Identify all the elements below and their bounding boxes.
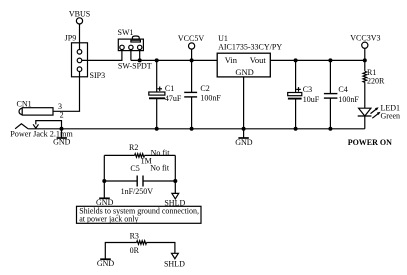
capacitor C1 47uF: [149, 60, 182, 128]
sleeve chevron contact: [15, 124, 28, 129]
svg-text:C3: C3: [303, 85, 312, 94]
wire JP9 pin3 down to power jack: [53, 72, 80, 112]
junction: [294, 127, 298, 131]
svg-text:Vin: Vin: [225, 55, 238, 65]
svg-text:R2: R2: [129, 143, 138, 152]
capacitor C3 10uF: [288, 60, 320, 128]
power port VBUS: [69, 9, 90, 24]
svg-text:SW1: SW1: [118, 28, 134, 37]
regulator U1 AIC1735-33CY/PY: [217, 34, 282, 77]
resistor R3 0R: [105, 231, 175, 258]
svg-text:VCC3V3: VCC3V3: [350, 33, 380, 42]
svg-text:No fit: No fit: [151, 148, 171, 157]
power port VCC5V: [178, 34, 204, 60]
ground at C5: [96, 198, 114, 207]
svg-text:C2: C2: [200, 84, 209, 93]
junction: [190, 127, 194, 131]
wire top rail VCC3V3: [270, 59, 365, 61]
junction: [60, 127, 64, 131]
wire SW1 pin2 to rail: [130, 50, 132, 61]
wire R2 right down: [174, 155, 176, 193]
svg-text:No fit: No fit: [150, 163, 170, 172]
connector JP9 (SIP3): [65, 34, 105, 80]
junction: [155, 127, 159, 131]
svg-text:VCC5V: VCC5V: [178, 34, 204, 43]
wire top rail VCC5V: [131, 59, 217, 61]
svg-text:SW-SPDT: SW-SPDT: [118, 62, 152, 71]
svg-text:GND: GND: [235, 67, 253, 77]
svg-text:GND: GND: [53, 138, 71, 147]
svg-text:R3: R3: [130, 231, 139, 240]
shield port SHLD at C5: [164, 193, 185, 207]
svg-text:at power jack only: at power jack only: [79, 214, 138, 223]
junction: [363, 58, 367, 62]
capacitor C5 1nF/250V: [104, 163, 175, 196]
svg-text:CN1: CN1: [17, 99, 32, 108]
capacitor C4 100nF: [324, 60, 360, 128]
wire U1 GND pin down: [243, 77, 245, 129]
svg-text:AIC1735-33CY/PY: AIC1735-33CY/PY: [218, 43, 282, 52]
LED LED1 Green: [358, 104, 400, 121]
shield port SHLD at R3: [164, 253, 185, 268]
junction: [173, 179, 177, 183]
svg-text:Vout: Vout: [250, 55, 267, 65]
ground at power jack: [53, 129, 71, 147]
resistor R2 1M: [104, 143, 175, 166]
svg-text:Green: Green: [381, 112, 401, 121]
note box: [77, 206, 202, 223]
junction: [294, 58, 298, 62]
wire R2 left down: [103, 155, 105, 197]
wire VBUS to JP9 pin1: [79, 24, 81, 50]
capacitor C2 100nF: [184, 60, 221, 128]
junction: [242, 127, 246, 131]
resistor R1 220R: [363, 68, 385, 86]
svg-text:1nF/250V: 1nF/250V: [121, 187, 154, 196]
svg-text:0R: 0R: [130, 246, 140, 255]
ground at R3: [97, 259, 115, 268]
svg-text:3: 3: [58, 102, 62, 111]
svg-text:10uF: 10uF: [303, 95, 320, 104]
svg-text:C1: C1: [165, 84, 174, 93]
svg-text:POWER ON: POWER ON: [348, 138, 392, 147]
junction: [155, 58, 159, 62]
svg-text:220R: 220R: [367, 77, 385, 86]
svg-text:100nF: 100nF: [200, 94, 221, 103]
switch SW1 SW-SPDT: [118, 28, 152, 71]
power port VCC3V3: [350, 33, 380, 71]
center pin contact arm with arrow: [36, 121, 62, 129]
svg-text:VBUS: VBUS: [69, 9, 90, 18]
connector CN1 power jack: [10, 99, 73, 138]
junction: [328, 127, 332, 131]
svg-text:SIP3: SIP3: [90, 71, 106, 80]
junction: [138, 58, 142, 62]
svg-text:GND: GND: [235, 138, 253, 147]
junction: [328, 58, 332, 62]
svg-text:2: 2: [60, 111, 64, 120]
wire SW1 pin3 to rail: [139, 50, 141, 61]
svg-text:C5: C5: [130, 164, 139, 173]
junction: [102, 179, 106, 183]
svg-text:JP9: JP9: [65, 34, 77, 43]
wire JP9 to SW1 pin1: [82, 50, 122, 61]
wire LED1 to rail: [364, 116, 366, 129]
svg-text:SHLD: SHLD: [164, 259, 185, 268]
svg-text:GND: GND: [97, 259, 115, 268]
wire bottom GND rail: [28, 128, 365, 130]
junction: [190, 58, 194, 62]
svg-text:C4: C4: [338, 85, 347, 94]
svg-text:100nF: 100nF: [338, 95, 359, 104]
svg-text:47uF: 47uF: [165, 94, 182, 103]
ground at U1: [235, 129, 253, 147]
wire R1 to LED1: [364, 82, 366, 108]
